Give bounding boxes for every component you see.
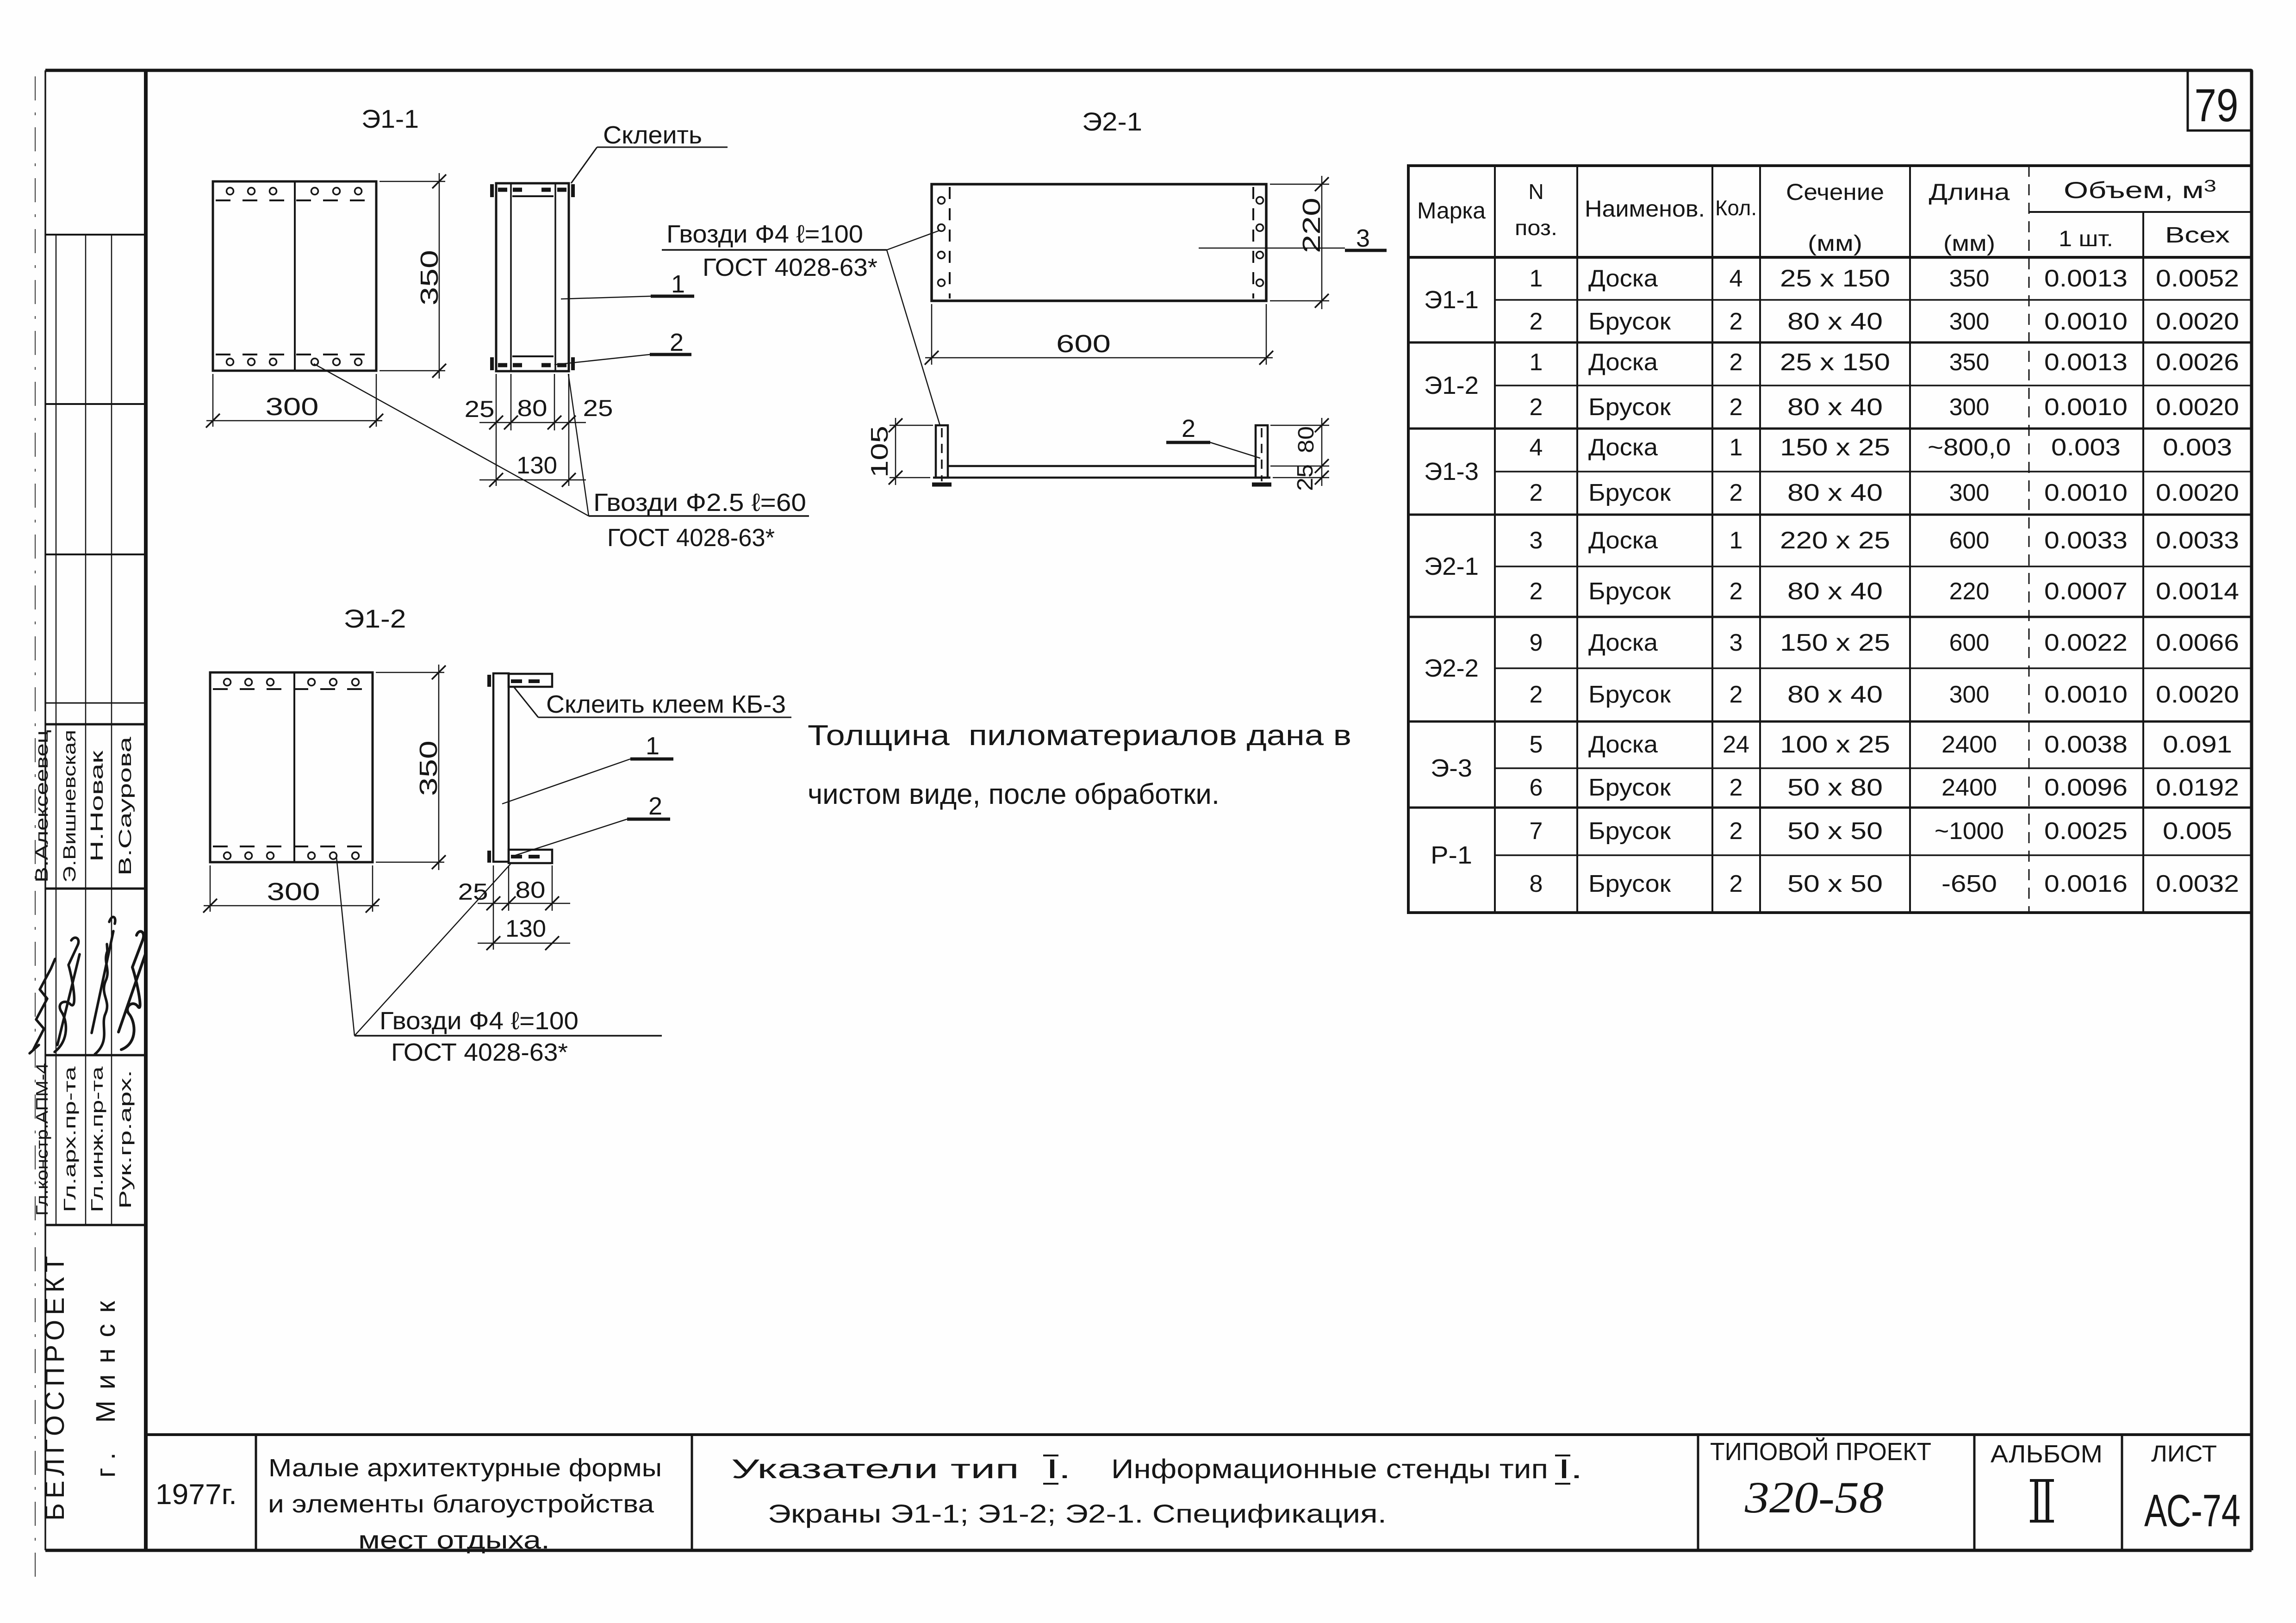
svg-text:1: 1	[646, 732, 660, 760]
svg-text:Брусок: Брусок	[1588, 774, 1671, 801]
svg-text:Марка: Марка	[1417, 198, 1486, 224]
svg-text:600: 600	[1949, 629, 1990, 656]
svg-text:ГОСТ 4028-63*: ГОСТ 4028-63*	[703, 254, 877, 281]
svg-text:0.003: 0.003	[2051, 434, 2121, 461]
svg-text:0.0010: 0.0010	[2044, 308, 2128, 335]
page edge dash-dot line	[35, 76, 36, 1588]
svg-text:2: 2	[1530, 308, 1543, 335]
svg-text:Рук.гр.арх.: Рук.гр.арх.	[116, 1070, 135, 1209]
stamp signatures (rotated squiggles)	[30, 959, 55, 1053]
svg-text:1: 1	[1530, 265, 1543, 292]
svg-text:г. Минск: г. Минск	[91, 1290, 121, 1477]
svg-text:0.0096: 0.0096	[2044, 774, 2128, 801]
svg-text:7: 7	[1530, 818, 1543, 845]
svg-text:25 x 150: 25 x 150	[1780, 265, 1890, 292]
svg-text:300: 300	[267, 878, 320, 906]
Э2-1 dim 220	[1270, 184, 1329, 185]
svg-text:Брусок: Брусок	[1588, 479, 1671, 506]
svg-text:80 x 40: 80 x 40	[1787, 394, 1883, 421]
svg-text:2: 2	[1530, 681, 1543, 708]
svg-text:0.0192: 0.0192	[2156, 774, 2239, 801]
svg-text:320-58: 320-58	[1744, 1473, 1884, 1522]
svg-text:2400: 2400	[1941, 774, 1997, 801]
spec table group separators	[1408, 342, 2252, 344]
svg-text:25: 25	[1293, 464, 1318, 491]
svg-text:Брусок: Брусок	[1588, 818, 1671, 845]
svg-text:350: 350	[1949, 265, 1990, 292]
svg-text:220: 220	[1298, 198, 1325, 253]
svg-text:0.0033: 0.0033	[2156, 527, 2239, 554]
svg-text:350: 350	[1949, 349, 1990, 376]
svg-text:Наименов.: Наименов.	[1585, 196, 1705, 222]
svg-text:0.0010: 0.0010	[2044, 394, 2128, 421]
svg-text:2: 2	[1730, 479, 1743, 506]
svg-text:Гл.констр.АПМ-4: Гл.констр.АПМ-4	[32, 1063, 51, 1216]
svg-text:8: 8	[1530, 871, 1543, 897]
svg-text:БЕЛГОСПРОЕКТ: БЕЛГОСПРОЕКТ	[40, 1251, 70, 1521]
Э1-1 front view bottom nail row	[216, 354, 374, 355]
svg-text:2: 2	[1730, 774, 1743, 801]
svg-text:Э2-1: Э2-1	[1082, 107, 1142, 136]
svg-text:1 шт.: 1 шт.	[2059, 227, 2113, 251]
svg-text:600: 600	[1056, 330, 1111, 358]
svg-text:80 x 40: 80 x 40	[1787, 681, 1883, 708]
Э1-2 front view panel	[210, 672, 373, 862]
svg-text:2: 2	[1182, 415, 1195, 442]
svg-text:(мм): (мм)	[1808, 231, 1862, 256]
svg-text:Э1-2: Э1-2	[344, 604, 406, 633]
svg-text:0.0032: 0.0032	[2156, 871, 2239, 897]
svg-text:5: 5	[1530, 731, 1543, 758]
svg-text:0.0020: 0.0020	[2156, 308, 2239, 335]
svg-text:2: 2	[1530, 578, 1543, 605]
Э1-2 front view top nail row	[224, 679, 231, 686]
svg-text:чистом виде, после обработки.: чистом виде, после обработки.	[808, 778, 1220, 810]
svg-text:300: 300	[1949, 394, 1990, 421]
svg-text:105: 105	[866, 426, 893, 478]
svg-text:Р-1: Р-1	[1431, 841, 1472, 869]
svg-text:600: 600	[1949, 527, 1990, 554]
svg-text:Доска: Доска	[1588, 629, 1658, 656]
Э2-1 plan view board	[932, 184, 1266, 301]
spec table header lines	[1408, 256, 2252, 259]
title block album roman numeral II	[2035, 1481, 2038, 1521]
svg-text:0.091: 0.091	[2163, 731, 2232, 758]
spec table row separators	[1495, 299, 2252, 301]
svg-text:Доска: Доска	[1588, 434, 1658, 461]
svg-text:50 x 50: 50 x 50	[1787, 818, 1883, 845]
svg-text:Доска: Доска	[1588, 349, 1658, 376]
svg-text:Объем, м3: Объем, м3	[2064, 176, 2216, 203]
svg-text:Гл.арх.пр-та: Гл.арх.пр-та	[60, 1066, 79, 1213]
svg-text:0.0020: 0.0020	[2156, 479, 2239, 506]
svg-text:Гвозди Ф4 ℓ=100: Гвозди Ф4 ℓ=100	[380, 1007, 579, 1035]
svg-text:0.0038: 0.0038	[2044, 731, 2128, 758]
svg-text:50 x 50: 50 x 50	[1787, 871, 1883, 897]
Э2-1 dim 105	[890, 425, 933, 426]
svg-text:0.0066: 0.0066	[2156, 629, 2239, 656]
svg-text:Сечение: Сечение	[1786, 179, 1884, 205]
svg-text:80: 80	[516, 877, 546, 903]
svg-text:350: 350	[415, 740, 442, 796]
svg-text:25: 25	[583, 395, 613, 421]
svg-text:0.005: 0.005	[2163, 818, 2232, 845]
svg-text:1: 1	[1730, 527, 1743, 554]
svg-text:0.0052: 0.0052	[2156, 265, 2239, 292]
Э1-2 front view bottom nail row	[213, 846, 371, 847]
svg-text:0.0013: 0.0013	[2044, 349, 2128, 376]
svg-text:80 x 40: 80 x 40	[1787, 308, 1883, 335]
svg-text:3: 3	[1730, 629, 1743, 656]
svg-text:Склеить клеем КБ-3: Склеить клеем КБ-3	[546, 690, 786, 718]
svg-text:Э.Вишневская: Э.Вишневская	[60, 730, 80, 883]
svg-text:150 x 25: 150 x 25	[1780, 629, 1890, 656]
svg-text:1977г.: 1977г.	[156, 1479, 237, 1511]
svg-text:Н.Новак: Н.Новак	[87, 750, 107, 862]
svg-text:300: 300	[1949, 681, 1990, 708]
Э1-2 dim 350	[376, 672, 444, 673]
svg-text:~1000: ~1000	[1935, 818, 2004, 845]
svg-text:4: 4	[1530, 434, 1543, 461]
svg-text:0.003: 0.003	[2163, 434, 2232, 461]
svg-text:0.0020: 0.0020	[2156, 681, 2239, 708]
svg-text:Гвозди Ф2.5 ℓ=60: Гвозди Ф2.5 ℓ=60	[593, 489, 806, 516]
svg-text:В.Саурова: В.Саурова	[116, 736, 135, 876]
svg-text:0.0022: 0.0022	[2044, 629, 2128, 656]
svg-text:АЛЬБОМ: АЛЬБОМ	[1991, 1440, 2103, 1468]
Э2-1 plan right nail strip	[1252, 187, 1254, 298]
svg-text:0.0020: 0.0020	[2156, 394, 2239, 421]
svg-text:0.0013: 0.0013	[2044, 265, 2128, 292]
Э2-1 section view flat board	[948, 465, 1256, 467]
Э1-2 side view top flange	[509, 674, 552, 687]
svg-text:2: 2	[670, 329, 684, 356]
Э1-1 dim 350	[380, 181, 445, 182]
spec table column lines	[1494, 166, 1496, 913]
svg-text:ЛИСТ: ЛИСТ	[2151, 1441, 2217, 1467]
svg-text:300: 300	[266, 393, 319, 421]
svg-text:80 x 40: 80 x 40	[1787, 479, 1883, 506]
svg-text:0.0010: 0.0010	[2044, 479, 2128, 506]
svg-text:Э2-1: Э2-1	[1424, 553, 1479, 580]
svg-text:80: 80	[517, 395, 548, 421]
svg-text:80 x 40: 80 x 40	[1787, 578, 1883, 605]
svg-text:Указатели тип: Указатели тип	[731, 1454, 1019, 1484]
svg-text:(мм): (мм)	[1943, 231, 1995, 256]
svg-text:Кол.: Кол.	[1715, 196, 1757, 220]
svg-text:2: 2	[1730, 394, 1743, 421]
svg-text:2: 2	[1730, 578, 1743, 605]
svg-text:Брусок: Брусок	[1588, 578, 1671, 605]
svg-text:0.0025: 0.0025	[2044, 818, 2128, 845]
svg-text:ГОСТ 4028-63*: ГОСТ 4028-63*	[391, 1038, 568, 1066]
svg-text:2400: 2400	[1941, 731, 1997, 758]
svg-text:Доска: Доска	[1588, 265, 1658, 292]
svg-text:3: 3	[1356, 224, 1370, 252]
svg-text:В.Алексеевец: В.Алексеевец	[32, 730, 52, 883]
svg-text:25: 25	[458, 879, 488, 905]
svg-text:Толщина пиломатериалов дана в: Толщина пиломатериалов дана в	[808, 720, 1351, 752]
svg-text:4: 4	[1730, 265, 1743, 292]
svg-text:0.0010: 0.0010	[2044, 681, 2128, 708]
svg-text:2: 2	[1730, 681, 1743, 708]
Э1-2 side view (channel section)	[493, 673, 509, 862]
svg-text:Доска: Доска	[1588, 731, 1658, 758]
svg-text:Э1-2: Э1-2	[1424, 372, 1479, 399]
svg-text:Э1-1: Э1-1	[1424, 286, 1479, 314]
svg-text:поз.: поз.	[1515, 216, 1557, 240]
svg-text:Э-3: Э-3	[1431, 754, 1472, 782]
svg-text:Э2-2: Э2-2	[1424, 654, 1479, 682]
svg-text:-650: -650	[1941, 871, 1997, 897]
svg-text:0.0007: 0.0007	[2044, 578, 2128, 605]
spec table outer border	[1408, 166, 2252, 913]
main frame border	[45, 69, 2252, 72]
sheet number box	[2188, 70, 2252, 131]
svg-text:79: 79	[2195, 80, 2239, 131]
svg-text:1: 1	[1730, 434, 1743, 461]
svg-text:9: 9	[1530, 629, 1543, 656]
Э1-1 front view top nail row	[227, 188, 234, 195]
svg-text:0.0033: 0.0033	[2044, 527, 2128, 554]
svg-text:Брусок: Брусок	[1588, 308, 1671, 335]
svg-text:Э1-3: Э1-3	[1424, 458, 1479, 485]
Э1-1 side view nail marks	[498, 188, 507, 192]
Э2-1 section view left post	[936, 425, 948, 478]
svg-text:130: 130	[516, 452, 557, 479]
position label 3	[1199, 248, 1345, 249]
svg-text:Малые архитектурные формы: Малые архитектурные формы	[268, 1454, 662, 1482]
svg-text:I.: I.	[1046, 1454, 1071, 1484]
svg-text:~800,0: ~800,0	[1928, 434, 2011, 461]
Э2-1 plan left nail strip	[949, 187, 951, 298]
title block vertical dividers	[255, 1435, 257, 1550]
svg-text:2: 2	[1730, 818, 1743, 845]
svg-text:0.0014: 0.0014	[2156, 578, 2239, 605]
title block top line	[146, 1433, 2252, 1436]
svg-text:Э1-1: Э1-1	[361, 104, 419, 133]
svg-text:Брусок: Брусок	[1588, 871, 1671, 897]
Э1-1 side view dims 25,80,25 and 130	[496, 374, 497, 486]
svg-text:350: 350	[416, 250, 443, 305]
svg-text:50 x 80: 50 x 80	[1787, 774, 1883, 801]
svg-text:Брусок: Брусок	[1588, 681, 1671, 708]
svg-text:1: 1	[671, 270, 685, 298]
svg-text:1: 1	[1530, 349, 1543, 376]
Э1-1 front view panel	[213, 181, 376, 371]
stamp column horizontal dividers	[45, 234, 146, 236]
svg-text:и элементы благоустройства: и элементы благоустройства	[268, 1490, 654, 1518]
svg-text:25 x 150: 25 x 150	[1780, 349, 1890, 376]
svg-text:Гл.инж.пр-та: Гл.инж.пр-та	[87, 1066, 106, 1212]
svg-text:2: 2	[1730, 308, 1743, 335]
svg-text:80: 80	[1294, 426, 1319, 453]
svg-text:300: 300	[1949, 479, 1990, 506]
svg-text:100 x 25: 100 x 25	[1780, 731, 1890, 758]
Э1-2 dim 300	[210, 865, 211, 912]
Э1-2 side view bottom flange	[509, 850, 552, 863]
svg-text:Гвозди Ф4 ℓ=100: Гвозди Ф4 ℓ=100	[666, 220, 863, 248]
svg-text:0.0026: 0.0026	[2156, 349, 2239, 376]
svg-text:220: 220	[1949, 578, 1990, 605]
svg-text:2: 2	[1530, 479, 1543, 506]
svg-text:Склеить: Склеить	[603, 121, 702, 149]
svg-text:Брусок: Брусок	[1588, 394, 1671, 421]
svg-text:мест отдыха.: мест отдыха.	[358, 1526, 550, 1554]
Э1-1 side view (section)	[496, 183, 569, 371]
Э2-1 dims 80 and 25	[1270, 425, 1329, 426]
svg-text:3: 3	[1530, 527, 1543, 554]
svg-text:Доска: Доска	[1588, 527, 1658, 554]
svg-text:Информационные стенды тип: Информационные стенды тип	[1111, 1454, 1548, 1484]
svg-text:ГОСТ 4028-63*: ГОСТ 4028-63*	[607, 524, 775, 552]
svg-text:2: 2	[1730, 871, 1743, 897]
svg-text:25: 25	[465, 396, 495, 422]
svg-text:300: 300	[1949, 308, 1990, 335]
Э1-1 dim 300	[212, 374, 214, 427]
svg-text:ТИПОВОЙ ПРОЕКТ: ТИПОВОЙ ПРОЕКТ	[1710, 1437, 1931, 1466]
stamp column vertical sub-dividers	[56, 235, 57, 1225]
Э1-2 side view dims 25,80 and 130	[493, 865, 494, 950]
svg-text:N: N	[1528, 180, 1543, 204]
svg-text:0.0016: 0.0016	[2044, 871, 2128, 897]
svg-text:220 x 25: 220 x 25	[1780, 527, 1890, 554]
svg-text:24: 24	[1723, 731, 1749, 758]
Э2-1 section view right post	[1256, 425, 1268, 478]
svg-text:АС-74: АС-74	[2144, 1485, 2240, 1536]
svg-text:6: 6	[1530, 774, 1543, 801]
svg-text:130: 130	[505, 915, 546, 942]
Э2-1 dim 600	[931, 304, 933, 365]
svg-text:2: 2	[648, 792, 662, 820]
svg-text:2: 2	[1730, 349, 1743, 376]
svg-text:Всех: Всех	[2165, 223, 2230, 248]
svg-text:2: 2	[1530, 394, 1543, 421]
svg-text:Экраны Э1-1; Э1-2; Э2-1. Спец: Экраны Э1-1; Э1-2; Э2-1. Спецификация.	[768, 1499, 1387, 1528]
svg-text:150 x 25: 150 x 25	[1780, 434, 1890, 461]
svg-text:Длина: Длина	[1929, 179, 2010, 205]
svg-text:I.: I.	[1558, 1454, 1583, 1484]
